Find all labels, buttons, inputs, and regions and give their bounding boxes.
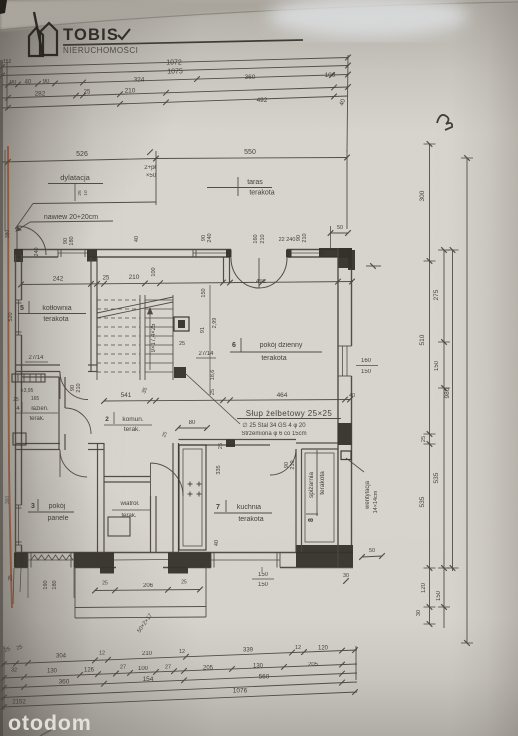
svg-text:spiżarnia: spiżarnia (308, 472, 315, 498)
bottom-right dark corner (296, 545, 353, 567)
svg-text:kuchnia: kuchnia (237, 504, 261, 511)
wall stub right of door (223, 257, 225, 283)
svg-text:terak.: terak. (29, 416, 44, 422)
svg-text:2152: 2152 (12, 700, 26, 706)
svg-text:22 240: 22 240 (279, 237, 296, 243)
svg-text:łazien.: łazien. (31, 406, 49, 412)
dylatacja line (33, 202, 156, 204)
kitchen left wall (172, 443, 174, 552)
svg-text:dylatacja: dylatacja (60, 173, 90, 182)
svg-text:pokój: pokój (49, 503, 66, 510)
logo checkmark (118, 29, 130, 39)
spizarnia top wall (296, 442, 338, 444)
svg-text:taras: taras (247, 179, 263, 186)
left exterior wall (15, 255, 17, 568)
bottom page curl line (40, 730, 51, 736)
top dimension lines (2, 58, 348, 68)
svg-text:535: 535 (419, 496, 426, 507)
lazienka right wall (58, 377, 60, 450)
svg-text:150: 150 (201, 288, 207, 297)
right dim small cross (366, 265, 381, 267)
wiatrolap right wall (150, 496, 152, 552)
stairs cut line (97, 297, 173, 313)
page top edge line (0, 2, 518, 30)
porch post right (168, 553, 188, 574)
svg-text:32: 32 (11, 668, 17, 674)
svg-text:50: 50 (369, 548, 375, 554)
svg-text:terak.: terak. (121, 513, 136, 519)
svg-text:terakota: terakota (261, 355, 286, 362)
corner 50 dim (330, 226, 332, 249)
svg-text:komun.: komun. (122, 416, 144, 423)
svg-text:1075: 1075 (167, 69, 183, 76)
svg-text:12: 12 (295, 645, 301, 651)
svg-text:275: 275 (433, 289, 440, 300)
svg-text:380: 380 (5, 230, 11, 239)
svg-text:25: 25 (84, 90, 91, 96)
kitchen top wall (179, 439, 297, 441)
svg-text:27: 27 (165, 665, 171, 671)
svg-text:pokój dzienny: pokój dzienny (260, 342, 303, 349)
kitchen stove crosses (188, 483, 193, 485)
svg-text:6: 6 (232, 342, 236, 349)
svg-text:50: 50 (337, 225, 343, 231)
svg-text:kotłownia: kotłownia (42, 305, 71, 312)
kotlownia bottom wall (15, 364, 60, 366)
svg-text:80: 80 (189, 420, 196, 426)
svg-text:terakota: terakota (238, 516, 263, 523)
svg-text:terakota: terakota (43, 316, 68, 323)
lazienka top wall (22, 376, 60, 378)
svg-text:7: 7 (216, 504, 220, 511)
svg-text:wentylacja: wentylacja (365, 480, 371, 510)
svg-text:2+pł: 2+pł (144, 165, 156, 171)
svg-text:190: 190 (43, 580, 49, 589)
svg-text:wiatroł.: wiatroł. (119, 501, 139, 507)
svg-text:210: 210 (129, 274, 140, 281)
svg-text:5: 5 (20, 305, 24, 312)
top wall dark pier (87, 250, 97, 262)
right dim line D outer (466, 158, 468, 643)
scribble mark right top (437, 115, 452, 130)
svg-text:100: 100 (151, 267, 157, 276)
svg-text:304: 304 (56, 654, 67, 660)
left wall window 2 (18, 505, 20, 545)
svg-text:40: 40 (25, 80, 32, 86)
stairs arrow line (149, 308, 151, 370)
hall dim line 541 (104, 400, 350, 402)
svg-text:1072: 1072 (166, 60, 182, 67)
door arc outside top-left corner (17, 226, 46, 255)
svg-text:25: 25 (8, 575, 14, 581)
svg-text:×50: ×50 (146, 173, 157, 179)
entry opening lines (114, 559, 168, 562)
hall cabinet (108, 517, 130, 536)
svg-text:126: 126 (84, 668, 95, 674)
svg-text:360: 360 (5, 496, 11, 505)
svg-text:154: 154 (143, 676, 154, 683)
top-left corner dark (14, 249, 23, 262)
bathroom fixture (13, 433, 26, 445)
right dim line A (429, 144, 431, 624)
top dim vertical connectors (347, 55, 348, 152)
svg-text:550: 550 (244, 149, 256, 156)
porch outline (74, 568, 76, 619)
logo diagonal stroke (34, 12, 43, 56)
hall bottom wall (104, 476, 150, 478)
svg-text:360: 360 (245, 74, 256, 81)
svg-text:terakota: terakota (249, 190, 274, 197)
bottom wall dark segment under kitchen (188, 553, 211, 568)
svg-text:560: 560 (259, 674, 270, 681)
porch dims (95, 590, 200, 591)
right-bottom 50 dim (362, 556, 382, 557)
dimension 526 (2, 159, 156, 163)
svg-text:120: 120 (421, 582, 427, 593)
svg-text:40: 40 (134, 236, 140, 242)
left page edge dark strip (0, 60, 3, 736)
right exterior wall (337, 248, 339, 567)
stair post lower concrete column (174, 367, 186, 378)
black corner mark top-left (0, 0, 7, 14)
svg-text:210: 210 (142, 651, 153, 657)
svg-text:25: 25 (218, 443, 224, 449)
paper grain (0, 0, 1, 1)
right wall window (342, 346, 344, 376)
svg-text:2,99: 2,99 (212, 318, 218, 329)
svg-text:520: 520 (8, 312, 14, 321)
svg-text:25: 25 (13, 397, 19, 403)
svg-text:Strzemiona φ 6 co 15cm: Strzemiona φ 6 co 15cm (241, 431, 306, 437)
spizarnia door arc (270, 449, 296, 475)
svg-text:464: 464 (277, 392, 288, 399)
french door arcs (231, 258, 259, 288)
svg-text:206: 206 (143, 583, 154, 589)
svg-text:282: 282 (35, 91, 46, 98)
spizarnia left wall (295, 449, 297, 552)
svg-text:492: 492 (257, 97, 268, 104)
svg-text:25: 25 (179, 341, 185, 347)
svg-text:360: 360 (59, 679, 70, 686)
dim 80 over kitchen (178, 427, 207, 429)
room 8 spizarnia label rotated (306, 450, 326, 522)
bottom dim vertical connectors (3, 646, 5, 710)
svg-text:27: 27 (120, 665, 126, 671)
svg-text:terakota: terakota (319, 471, 326, 495)
terrace dimension 550 (156, 158, 347, 159)
top wall window 1 (58, 252, 88, 254)
radiator symbol kotlownia (12, 374, 45, 382)
right wall thick segment (338, 423, 352, 445)
svg-text:Słup żelbetowy 25×25: Słup żelbetowy 25×25 (246, 409, 333, 418)
svg-text:25: 25 (181, 580, 187, 586)
svg-text:150: 150 (361, 369, 372, 375)
svg-text:27/14: 27/14 (28, 355, 44, 361)
svg-text:25: 25 (421, 436, 427, 442)
svg-text:9×17,4×25: 9×17,4×25 (151, 323, 157, 352)
svg-text:30: 30 (416, 610, 422, 616)
svg-text:12: 12 (99, 651, 105, 657)
svg-text:NIERUCHOMOŚCI: NIERUCHOMOŚCI (63, 46, 138, 55)
hall-pokoj wall vertical (97, 443, 99, 553)
svg-text:terak.: terak. (124, 426, 140, 433)
top wall window 3 (288, 252, 323, 254)
bottom wall dark segment left of porch (74, 553, 100, 568)
svg-text:300: 300 (419, 190, 426, 201)
svg-text:210: 210 (260, 234, 266, 243)
svg-text:160: 160 (361, 358, 372, 364)
left wall window 1 (18, 300, 20, 335)
svg-text:130: 130 (253, 664, 264, 670)
svg-text:TOBIS: TOBIS (63, 26, 119, 44)
svg-text:180: 180 (69, 236, 75, 245)
porch post left (100, 553, 114, 574)
svg-text:90: 90 (43, 79, 50, 85)
svg-text:510: 510 (419, 334, 426, 345)
svg-text:120: 120 (318, 646, 329, 652)
kotlownia door arc (60, 372, 88, 400)
svg-text:2: 2 (105, 416, 109, 423)
svg-text:210: 210 (125, 88, 136, 95)
logo underline long line (63, 40, 303, 45)
svg-text:≡3,95: ≡3,95 (21, 388, 34, 394)
logo house icon (29, 28, 43, 56)
top exterior wall (15, 249, 231, 251)
svg-text:10: 10 (83, 190, 89, 196)
svg-text:240: 240 (207, 233, 213, 242)
svg-text:18,6: 18,6 (210, 370, 216, 381)
wiatrolap door arc (151, 463, 184, 496)
svg-text:3: 3 (31, 503, 35, 510)
pokoj top wall (15, 443, 60, 445)
svg-text:205: 205 (203, 666, 214, 672)
bottom wall window centre (211, 559, 280, 561)
svg-text:25: 25 (210, 389, 216, 395)
top page edge shadow band (0, 0, 518, 30)
upper interior dim line (21, 282, 353, 285)
right dim line B (443, 250, 445, 628)
corner pilaster (348, 250, 355, 270)
svg-text:12: 12 (179, 649, 185, 655)
svg-text:541: 541 (121, 392, 132, 399)
svg-text:100: 100 (138, 666, 149, 672)
bottom-left corner dark (14, 553, 28, 568)
right dim line C (452, 250, 454, 571)
svg-text:∅ 25 Stal 34 GS 4 φ 20: ∅ 25 Stal 34 GS 4 φ 20 (242, 422, 306, 429)
svg-text:nawiew 20+20cm: nawiew 20+20cm (44, 214, 98, 221)
bottom dimension lines (2, 650, 357, 664)
svg-text:130: 130 (47, 669, 58, 675)
svg-text:40: 40 (349, 393, 355, 399)
bottom exterior wall (15, 552, 353, 554)
svg-text:150: 150 (258, 572, 269, 578)
svg-text:100: 100 (325, 72, 336, 79)
svg-text:526: 526 (76, 151, 88, 158)
svg-text:27/14: 27/14 (198, 351, 214, 357)
slup leader line (186, 374, 240, 424)
stairs centre rail (139, 295, 141, 380)
svg-text:1076: 1076 (233, 688, 248, 695)
svg-text:150: 150 (434, 360, 440, 371)
svg-text:165: 165 (31, 396, 40, 402)
stairs treads (97, 299, 140, 301)
svg-text:210: 210 (76, 383, 82, 392)
svg-text:91: 91 (200, 327, 206, 333)
kitchen counter (179, 445, 206, 550)
svg-text:210: 210 (302, 233, 308, 242)
top wall window 2 (193, 252, 230, 254)
lazienka door arc (65, 408, 91, 434)
svg-text:152: 152 (3, 59, 12, 65)
svg-text:14×14cm: 14×14cm (373, 490, 379, 513)
svg-text:180: 180 (52, 580, 58, 589)
bottom wall window left with radiator (28, 559, 74, 561)
red pen stroke left margin (8, 146, 12, 608)
svg-text:25: 25 (103, 276, 110, 282)
svg-text:242: 242 (53, 276, 64, 283)
svg-text:160: 160 (253, 234, 259, 243)
svg-text:panele: panele (47, 515, 68, 522)
svg-text:25: 25 (102, 581, 108, 587)
svg-text:324: 324 (134, 77, 145, 84)
pokoj door arc (60, 450, 87, 477)
svg-text:150: 150 (436, 590, 442, 601)
spizarnia inner outline (305, 453, 334, 542)
svg-text:339: 339 (243, 648, 254, 654)
svg-text:8: 8 (308, 518, 315, 522)
svg-text:335: 335 (216, 465, 222, 474)
svg-text:240: 240 (34, 247, 40, 256)
light exposure patch top (268, 0, 468, 38)
wentylacja box on wall (341, 451, 351, 460)
svg-text:205: 205 (308, 662, 319, 668)
top-right corner thick (319, 248, 352, 257)
taras room label (237, 177, 239, 196)
svg-text:210: 210 (290, 460, 296, 469)
svg-text:980: 980 (444, 387, 451, 398)
svg-text:25: 25 (77, 190, 83, 196)
svg-text:90: 90 (10, 80, 17, 86)
svg-text:40: 40 (214, 540, 220, 546)
kotlownia right wall (90, 257, 92, 372)
svg-text:535: 535 (433, 472, 440, 483)
stair post upper (174, 317, 189, 331)
svg-text:150: 150 (258, 582, 269, 588)
